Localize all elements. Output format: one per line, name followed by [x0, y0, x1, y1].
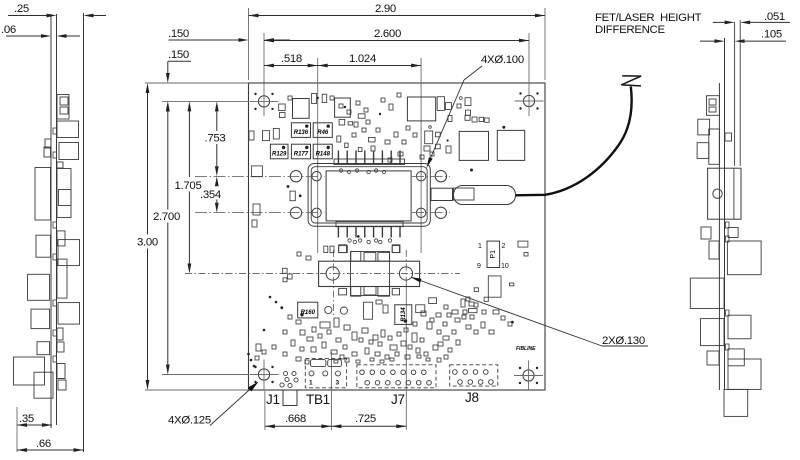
svg-text:2XØ.130: 2XØ.130: [602, 335, 645, 347]
svg-text:.150: .150: [168, 49, 189, 61]
svg-text:1.024: 1.024: [349, 53, 376, 65]
svg-text:3.00: 3.00: [137, 237, 158, 249]
svg-text:10: 10: [501, 263, 509, 270]
svg-text:TB1: TB1: [306, 392, 330, 407]
svg-text:R148: R148: [316, 152, 331, 158]
svg-text:J1: J1: [266, 392, 280, 407]
svg-text:2.90: 2.90: [375, 3, 396, 15]
svg-text:FIBLINE: FIBLINE: [516, 346, 536, 352]
svg-text:.354: .354: [200, 189, 221, 201]
svg-text:J8: J8: [465, 390, 479, 405]
svg-text:R46: R46: [317, 130, 329, 136]
svg-text:.25: .25: [14, 3, 29, 15]
svg-text:.150: .150: [168, 28, 189, 40]
svg-text:4XØ.125: 4XØ.125: [168, 415, 211, 427]
svg-text:P1: P1: [490, 250, 497, 259]
svg-text:1.705: 1.705: [175, 180, 202, 192]
svg-text:.668: .668: [285, 413, 306, 425]
svg-text:9: 9: [477, 263, 481, 270]
svg-text:R136: R136: [294, 130, 309, 136]
svg-text:2.600: 2.600: [374, 28, 401, 40]
svg-text:2.700: 2.700: [153, 211, 180, 223]
svg-text:3: 3: [336, 380, 340, 387]
svg-text:.051: .051: [764, 11, 785, 23]
svg-text:.06: .06: [1, 24, 16, 36]
svg-text:DIFFERENCE: DIFFERENCE: [595, 24, 665, 36]
svg-text:1: 1: [478, 243, 482, 250]
svg-text:FET/LASER HEIGHT: FET/LASER HEIGHT: [595, 12, 702, 24]
svg-text:.725: .725: [355, 413, 376, 425]
svg-text:2: 2: [502, 243, 506, 250]
svg-text:.35: .35: [19, 413, 34, 425]
svg-text:.105: .105: [761, 29, 782, 41]
svg-text:.518: .518: [281, 53, 302, 65]
svg-text:R177: R177: [294, 152, 309, 158]
svg-text:1: 1: [309, 380, 313, 387]
svg-text:.753: .753: [205, 133, 226, 145]
svg-text:R129: R129: [272, 152, 287, 158]
svg-text:.66: .66: [36, 438, 51, 450]
svg-text:4XØ.100: 4XØ.100: [481, 54, 524, 66]
svg-text:J7: J7: [391, 392, 405, 407]
